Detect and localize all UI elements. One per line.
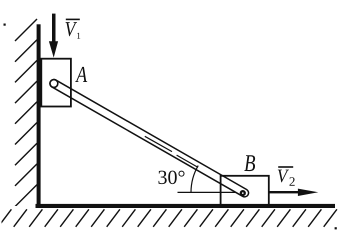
slider block B xyxy=(221,176,269,207)
wall hatching xyxy=(15,19,37,227)
label 30deg xyxy=(158,171,184,185)
pin A xyxy=(50,80,58,88)
angle baseline at B xyxy=(178,191,241,193)
speck top-left xyxy=(4,24,6,26)
arrow V1 xyxy=(49,14,58,58)
floor line xyxy=(36,204,336,208)
label V2 xyxy=(278,167,295,186)
rod AB (capsule outline) xyxy=(54,84,245,193)
floor hatching xyxy=(0,209,337,227)
speck bottom-right xyxy=(335,227,337,229)
label V1 xyxy=(66,19,81,38)
pin B xyxy=(241,191,245,195)
wall line xyxy=(37,24,41,208)
label B xyxy=(244,155,255,171)
rod axis dashes xyxy=(145,136,198,167)
angle arc 30deg xyxy=(191,166,198,193)
slider block A xyxy=(41,59,71,107)
arrow V2 xyxy=(269,189,318,196)
label A xyxy=(75,67,87,82)
